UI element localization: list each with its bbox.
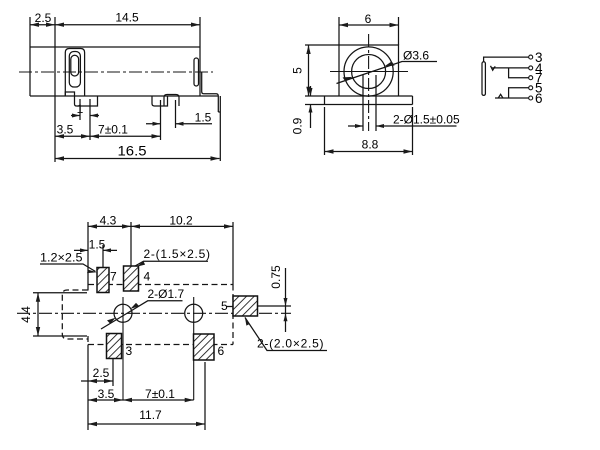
right leg hook: [164, 95, 179, 107]
front flange: [325, 96, 413, 105]
body outline dashed top: [88, 284, 233, 286]
right tab: [194, 58, 199, 86]
svg-text:1.5: 1.5: [89, 238, 106, 252]
right leg foot: [152, 96, 168, 106]
svg-text:2-(2.0×2.5): 2-(2.0×2.5): [257, 337, 324, 351]
svg-text:10.2: 10.2: [169, 214, 193, 228]
wire pin 6: [495, 97, 529, 99]
svg-text:0.9: 0.9: [291, 117, 305, 134]
svg-text:2-(1.5×2.5): 2-(1.5×2.5): [144, 247, 211, 261]
dimension line 11.7: [88, 423, 205, 425]
svg-text:5: 5: [291, 67, 305, 74]
svg-text:7±0.1: 7±0.1: [145, 387, 175, 401]
slot bottom step: [65, 92, 74, 96]
svg-text:7±0.1: 7±0.1: [98, 123, 128, 137]
barrel seam line: [54, 17, 56, 162]
hole 2: [185, 304, 203, 322]
wire pin 3: [484, 57, 529, 61]
svg-text:Ø3.6: Ø3.6: [403, 49, 429, 63]
mounting bracket: [202, 72, 221, 161]
jack sleeve bar: [482, 62, 485, 96]
crosshair horizontal: [330, 71, 408, 73]
body outline dashed right: [232, 285, 234, 345]
dimension line 3.5 / 7±0.1: [55, 135, 161, 137]
svg-text:8.8: 8.8: [362, 138, 379, 152]
dimension line 16.5: [55, 158, 220, 160]
svg-text:5: 5: [221, 299, 228, 313]
leader 2-(2.0x2.5): [245, 318, 327, 351]
dimension line 2.5 and 14.5: [30, 24, 200, 26]
contact mark pin 4: [491, 66, 496, 70]
dimension 1.5 arrows: [74, 249, 117, 251]
extension lines legs: [80, 99, 176, 140]
svg-text:1.5: 1.5: [195, 111, 212, 125]
dimension 0.9 arrows: [310, 86, 312, 128]
contact mark pin 6: [498, 94, 503, 98]
dimension line 4.4: [37, 293, 39, 336]
pin 3 terminal: [529, 55, 533, 59]
switch contact strip: [69, 52, 80, 88]
side view body outline: [30, 47, 218, 96]
dimension line 4.3 / 10.2: [88, 225, 233, 227]
dimension line 3.5 / 7±0.1 (pcb): [88, 399, 194, 401]
extension lines 6: [339, 17, 399, 45]
svg-text:3.5: 3.5: [98, 387, 115, 401]
wire pin 7: [509, 68, 529, 78]
dimension 2-Ø1.5 leader: [348, 125, 457, 127]
left extension line: [29, 17, 31, 47]
diameter 3.6 leader: [337, 62, 438, 84]
pin edges front: [363, 75, 376, 131]
svg-text:7: 7: [110, 270, 117, 284]
extension lines 4.4: [33, 293, 87, 336]
dimension line 2.5: [81, 380, 113, 382]
crosshair vertical centerline: [368, 34, 370, 131]
dimension 1 arrows: [71, 115, 99, 117]
svg-text:2-Ø1.5±0.05: 2-Ø1.5±0.05: [393, 113, 460, 127]
switch slot outer: [65, 49, 84, 97]
switch slot inner pill: [71, 55, 79, 76]
dimension line 1.5: [146, 123, 212, 125]
inner circle: [352, 55, 386, 89]
main centerline: [17, 312, 291, 314]
svg-text:6: 6: [535, 91, 543, 106]
pin 6 terminal: [529, 96, 533, 100]
svg-text:4.4: 4.4: [19, 306, 33, 323]
extension line pad5 center: [258, 305, 291, 307]
svg-text:2-Ø1.7: 2-Ø1.7: [148, 287, 185, 301]
dimension 0.75 line: [285, 268, 287, 332]
left leg foot: [75, 96, 98, 106]
svg-text:16.5: 16.5: [118, 143, 147, 159]
outer circle: [344, 47, 393, 96]
svg-text:11.7: 11.7: [139, 408, 162, 422]
body outline dashed bottom: [88, 344, 233, 346]
svg-text:4.3: 4.3: [100, 214, 117, 228]
pad 4: [124, 266, 139, 291]
svg-text:14.5: 14.5: [115, 11, 139, 25]
barrel protrusion outline: [62, 290, 88, 339]
wire pin 4: [492, 67, 529, 69]
extension lines 8.8: [325, 107, 413, 155]
right extension line: [199, 17, 201, 47]
dimension line 5: [308, 45, 310, 96]
hole 1: [114, 304, 132, 322]
extension lines 5: [305, 45, 339, 105]
svg-text:2.5: 2.5: [93, 366, 110, 380]
pin 7 terminal: [529, 76, 533, 80]
pin 5 terminal: [529, 86, 533, 90]
pad 5 label leader: [227, 306, 233, 308]
svg-text:4: 4: [144, 270, 151, 284]
leader 2-diam1.7: [101, 301, 183, 329]
svg-text:6: 6: [365, 12, 372, 26]
svg-text:6: 6: [218, 344, 225, 358]
body outline dashed left: [87, 285, 89, 345]
svg-text:3: 3: [126, 344, 133, 358]
centerline side view: [19, 71, 213, 73]
leader 1.2x2.5: [40, 264, 96, 272]
pin 4 terminal: [529, 66, 533, 70]
svg-text:2.5: 2.5: [35, 11, 52, 25]
pad 5: [233, 296, 258, 316]
svg-text:3.5: 3.5: [57, 123, 74, 137]
front body: [339, 45, 399, 96]
pad 6: [194, 334, 215, 360]
dimension line 8.8: [325, 151, 413, 153]
hole 2 vertical centerline: [193, 297, 195, 400]
pad 3: [107, 334, 122, 359]
extension lines bottom dims: [88, 345, 205, 431]
extension lines top dims: [88, 222, 233, 285]
dimension line 6: [339, 24, 399, 26]
svg-text:1.2×2.5: 1.2×2.5: [40, 251, 83, 265]
leader 2-(1.5x2.5): [135, 261, 208, 266]
svg-text:0.75: 0.75: [269, 265, 283, 289]
pad 7: [97, 268, 109, 293]
wire pin 5: [509, 88, 529, 98]
hole 1 vertical centerline: [122, 297, 124, 400]
